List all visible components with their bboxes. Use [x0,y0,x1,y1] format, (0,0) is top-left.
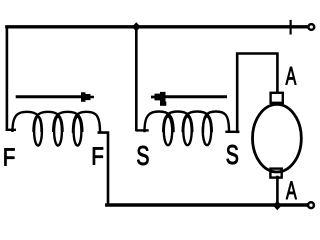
wire: S coil right foot [227,131,239,133]
terminal: bottom right open circle [308,202,314,208]
ink blot under S arrowhead [160,102,166,106]
terminal: top right open circle [308,24,314,30]
tick mark on top wire near + terminal [290,21,292,33]
arrow: flux direction over F coil (points right) [17,95,82,98]
wire: S coil up and over to armature top brush [237,54,277,132]
brush: bottom square [270,169,281,178]
brush: top square [271,93,283,103]
label S (left) [137,146,148,165]
wire: left vertical drop to F coil [6,27,9,129]
label F (left) [5,149,15,166]
inductor S1: crossover loops [164,116,172,145]
node: bottom junction dot [273,201,282,211]
node: top junction dot [132,22,141,31]
wire: junction drop to S coil [135,28,138,130]
armature: motor circle [253,104,302,172]
wire: armature bottom brush to bottom bus [276,177,279,205]
inductor S1: series field coil humps [137,129,147,131]
wire: top bus from left corner to right terminal [7,25,307,28]
label A (top) [286,67,297,84]
label F (right) [93,148,103,165]
wire: bottom bus to right terminal [107,203,307,206]
label S (right) [227,145,238,164]
inductor F1: shunt field coil humps [7,129,15,131]
wire: F coil to bottom bus [99,133,108,205]
arrow: flux direction over S coil (points left) [164,95,226,98]
inductor F1: crossover loops [34,117,42,146]
label A (bottom) [286,182,297,199]
